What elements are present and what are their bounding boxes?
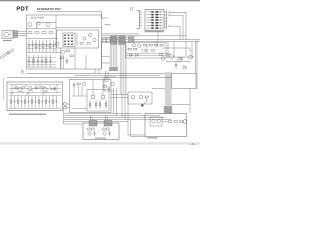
motor terminal marks bbox=[10, 32, 12, 37]
wire bbox=[128, 121, 145, 135]
limiter outline bbox=[145, 114, 187, 137]
capacitor C7 bbox=[37, 55, 39, 67]
wire bbox=[111, 97, 128, 99]
label amp board bbox=[9, 114, 46, 115]
resistor R63 bbox=[145, 96, 148, 98]
resistor R62 bbox=[180, 121, 183, 123]
wire bbox=[56, 27, 102, 29]
pin row 1 bbox=[147, 11, 164, 13]
wire bbox=[72, 108, 87, 110]
vertical wires into bus C bbox=[114, 88, 129, 121]
wire bbox=[27, 61, 56, 63]
capacitor C9 bbox=[41, 55, 43, 67]
wire bbox=[170, 26, 181, 39]
resistor R61 bbox=[174, 121, 177, 123]
wire bbox=[21, 69, 23, 71]
transistor Q31 bbox=[28, 86, 32, 90]
wire bbox=[157, 32, 159, 41]
transistor Q25 bbox=[161, 57, 165, 61]
svg-text:PDT: PDT bbox=[16, 7, 29, 13]
header rule wire bbox=[37, 12, 108, 18]
resistor R27 bbox=[167, 54, 170, 56]
transistor Q20 bbox=[170, 55, 174, 59]
capacitor C31 bbox=[20, 96, 22, 108]
wire bbox=[146, 46, 148, 53]
transistor Q7 bbox=[88, 33, 91, 36]
capacitor C2 bbox=[31, 40, 33, 52]
wire bbox=[72, 95, 87, 97]
wire arrow bbox=[141, 102, 146, 107]
resistor R30 bbox=[10, 96, 12, 108]
wire bbox=[35, 85, 37, 91]
wire bus C2 bbox=[64, 115, 160, 117]
capacitor C60 bbox=[108, 86, 110, 91]
capacitor C20 bbox=[175, 62, 177, 70]
capacitor C4 bbox=[45, 40, 47, 52]
wire bbox=[67, 107, 70, 109]
wire diagonal bbox=[0, 49, 14, 58]
wire bbox=[195, 41, 197, 73]
wire rail B2 bbox=[7, 77, 171, 79]
resistor R40 bbox=[89, 100, 91, 109]
wire bbox=[56, 85, 58, 93]
capacitor C32 bbox=[27, 96, 29, 108]
wire bus C5 bbox=[64, 120, 128, 122]
connector bar CB1 hatched bbox=[111, 36, 118, 45]
label mid small bbox=[105, 24, 111, 25]
wire bbox=[18, 33, 27, 35]
wire bbox=[126, 52, 166, 54]
resistor R24 bbox=[128, 48, 131, 50]
bottom scan band bbox=[0, 142, 200, 144]
wire bus C1 bbox=[64, 113, 142, 115]
capacitor C8 bbox=[66, 58, 68, 64]
wire bbox=[27, 28, 56, 30]
wire bbox=[81, 86, 83, 96]
wire bbox=[152, 88, 165, 90]
transistor Q61 bbox=[157, 120, 161, 124]
wire right edge bbox=[196, 39, 198, 89]
motor M1 bbox=[4, 32, 9, 37]
resistor R38 bbox=[35, 87, 38, 89]
resistor R1 bbox=[28, 32, 32, 34]
box small bbox=[128, 92, 152, 104]
transistor Q63 bbox=[131, 95, 135, 99]
wire bbox=[162, 121, 169, 123]
label motor bbox=[3, 40, 12, 41]
wire bbox=[166, 56, 194, 58]
resistor R12 bbox=[80, 43, 83, 45]
wire bbox=[102, 62, 110, 64]
pin row 5 bbox=[147, 22, 164, 24]
grey band right bbox=[165, 72, 172, 106]
pin row 3 bbox=[147, 17, 164, 19]
wire bbox=[121, 95, 123, 118]
resistor R3 bbox=[42, 32, 46, 34]
wire bbox=[60, 48, 62, 69]
resistor R34 bbox=[38, 96, 40, 108]
resistor R31 bbox=[17, 96, 19, 108]
resistor R41 bbox=[95, 100, 97, 109]
resistor R33 bbox=[31, 96, 33, 108]
resistor R50 bbox=[88, 128, 91, 130]
transistor Q66 bbox=[111, 82, 115, 86]
wire bbox=[189, 89, 191, 113]
wire bbox=[27, 52, 60, 54]
transistor Q24 bbox=[138, 44, 141, 47]
resistor R52 bbox=[103, 128, 106, 130]
resistor R20 bbox=[144, 44, 147, 46]
connector J1 hatched bbox=[14, 31, 18, 38]
transistor Q40 bbox=[91, 95, 95, 99]
ribbon column 2 bbox=[120, 45, 127, 95]
wire bbox=[9, 95, 61, 97]
wire bbox=[173, 41, 175, 57]
sub-board outline bbox=[57, 30, 99, 48]
wire bus A2 bbox=[102, 35, 187, 37]
wire bbox=[102, 80, 104, 95]
wire bbox=[162, 48, 190, 52]
pin row 4 bbox=[147, 19, 164, 21]
wire drop bbox=[94, 120, 96, 121]
transistor Q60 bbox=[152, 120, 156, 124]
wire bus A3 bbox=[102, 37, 135, 39]
pin pads U1 bbox=[64, 35, 66, 36]
resistor R39 bbox=[51, 88, 54, 90]
capacitor C40 bbox=[73, 82, 75, 88]
resistor R29 bbox=[151, 50, 154, 52]
resistor R7 bbox=[49, 40, 51, 52]
pin row 2 bbox=[147, 14, 164, 16]
capacitor C33 bbox=[34, 96, 36, 108]
wire bbox=[37, 22, 57, 24]
wire bbox=[141, 49, 143, 54]
wire bus C4 bbox=[64, 119, 171, 121]
wire bbox=[167, 41, 169, 58]
wire bbox=[124, 95, 126, 120]
wire bbox=[9, 108, 61, 110]
transistor Q6 bbox=[83, 37, 86, 40]
capacitor C35 bbox=[48, 96, 50, 108]
capacitor C37 bbox=[54, 86, 56, 91]
resistor R25 bbox=[134, 48, 137, 50]
wire bbox=[9, 84, 61, 86]
wire drop bbox=[105, 116, 107, 121]
wire bbox=[127, 95, 129, 122]
wire bbox=[101, 41, 103, 69]
resistor R36 bbox=[52, 96, 54, 108]
junction boxes at bus left bbox=[103, 38, 106, 43]
wire bbox=[73, 88, 75, 96]
transistor Q64 bbox=[139, 95, 143, 99]
wire bbox=[55, 15, 57, 53]
grey band right hatched end bbox=[164, 106, 172, 114]
wire bbox=[62, 55, 64, 69]
wire bus A1 bbox=[102, 33, 140, 35]
wire bbox=[185, 41, 187, 56]
box top-right lower bbox=[172, 73, 197, 88]
connector CN2 right pins bbox=[164, 11, 170, 29]
label under connector bbox=[145, 31, 164, 32]
transistor Q62 bbox=[183, 120, 187, 124]
transistor Q32 bbox=[43, 87, 47, 91]
label limiter bbox=[147, 137, 158, 138]
wire bbox=[9, 92, 61, 94]
transistor Q21 bbox=[178, 58, 182, 62]
wire bbox=[27, 66, 56, 68]
capacitor C51 bbox=[108, 131, 110, 136]
capacitor C5 bbox=[52, 40, 54, 52]
wire bbox=[111, 94, 128, 96]
resistor R19 bbox=[160, 54, 163, 56]
emitter arrow Q31 bbox=[32, 90, 34, 92]
bottom-center outline bbox=[83, 123, 119, 140]
svg-text:—9—: —9— bbox=[189, 142, 196, 146]
capacitor C30 bbox=[13, 96, 15, 108]
pin row 6 bbox=[147, 25, 164, 27]
capacitor C41 bbox=[42, 93, 45, 94]
inner box bbox=[87, 90, 109, 112]
middle board outline bbox=[69, 80, 111, 113]
wire bus A4 bbox=[102, 39, 201, 41]
wire bbox=[104, 76, 116, 78]
wire bbox=[18, 31, 27, 33]
resistor R21 bbox=[149, 44, 152, 46]
wire bbox=[131, 120, 146, 137]
wire bbox=[104, 90, 114, 92]
resistor R60 bbox=[169, 121, 172, 123]
board outline U100 bbox=[27, 15, 102, 69]
resistor R43 bbox=[105, 100, 107, 109]
wire drop bbox=[92, 118, 94, 121]
wire drop bbox=[90, 116, 92, 121]
connector bar CB5 hatched bbox=[104, 121, 112, 127]
connector CN1 box bbox=[145, 10, 164, 31]
diode D3 bbox=[136, 54, 139, 57]
resistor R2 bbox=[35, 32, 39, 34]
resistor R22 bbox=[155, 44, 158, 46]
wire bbox=[156, 41, 158, 47]
diode D2 bbox=[130, 54, 133, 57]
wire bbox=[67, 103, 70, 105]
resistor R11 bbox=[70, 55, 73, 57]
top scan band bbox=[0, 0, 200, 1]
resistor R6 bbox=[42, 40, 44, 52]
wire bbox=[146, 98, 148, 102]
resistor R13 bbox=[87, 43, 90, 45]
wire bbox=[98, 69, 100, 73]
ribbon column 1 bbox=[110, 45, 118, 68]
wire bbox=[170, 12, 187, 39]
resistor R53 bbox=[107, 128, 110, 130]
wire bbox=[39, 85, 41, 89]
transistor Q4 bbox=[55, 42, 59, 46]
wire bbox=[27, 38, 58, 40]
wire bbox=[76, 33, 78, 46]
wire diagonal bbox=[0, 51, 14, 60]
transistor Q5 bbox=[61, 50, 65, 54]
wire bbox=[166, 61, 190, 63]
wire bbox=[62, 103, 63, 105]
wire drop bbox=[109, 120, 111, 121]
resistor R37 bbox=[14, 87, 17, 89]
capacitor C36 bbox=[55, 96, 57, 108]
wire bbox=[11, 85, 13, 93]
wire bbox=[74, 48, 76, 69]
wire bbox=[15, 85, 17, 89]
wire bbox=[18, 35, 27, 37]
resistor R28 bbox=[144, 50, 147, 52]
wire bbox=[9, 88, 61, 90]
wire bbox=[172, 104, 191, 106]
ribbon column 1 end hatched bbox=[109, 67, 118, 71]
transistor Q23 bbox=[132, 44, 135, 47]
resistor R14 bbox=[45, 55, 47, 67]
wire bbox=[103, 77, 105, 91]
transistor Q30 bbox=[18, 87, 22, 91]
resistor R32 bbox=[24, 96, 26, 108]
wire bbox=[85, 55, 87, 69]
wire bbox=[78, 85, 80, 96]
svg-text:ACTUATOR: ACTUATOR bbox=[31, 16, 44, 19]
wire bbox=[170, 15, 184, 39]
transistor Q42 bbox=[82, 82, 85, 85]
emitter arrow Q32 bbox=[47, 91, 49, 93]
capacitor C10 bbox=[49, 55, 51, 67]
wire bbox=[60, 55, 62, 69]
capacitor C3 bbox=[38, 40, 40, 52]
terminal T1 bbox=[64, 103, 67, 106]
capacitor C34 bbox=[41, 96, 43, 108]
wire bus A5 bbox=[102, 41, 201, 43]
wire bbox=[102, 55, 110, 57]
sub-box power bbox=[126, 43, 167, 59]
transistor Q2 bbox=[37, 22, 40, 25]
wire bbox=[27, 48, 56, 50]
diode D1 bbox=[183, 66, 186, 71]
resistor R35 bbox=[45, 96, 47, 108]
resistor R26 bbox=[180, 58, 183, 60]
label bottom-center bbox=[95, 138, 106, 139]
transistor Q3 bbox=[46, 23, 50, 27]
transistor Q65 bbox=[105, 78, 109, 82]
tick marks top middle bbox=[131, 7, 133, 11]
transistor Q51 bbox=[103, 132, 106, 135]
connector bar CB2 hatched bbox=[119, 36, 126, 45]
resistor R9 bbox=[60, 57, 63, 59]
wire bbox=[36, 23, 38, 29]
wire bbox=[49, 85, 51, 89]
wire left edge stub bbox=[3, 78, 5, 101]
capacitor C6 bbox=[28, 55, 30, 67]
wire bbox=[105, 71, 107, 78]
terminal T2 bbox=[64, 106, 67, 109]
wire bbox=[27, 44, 56, 46]
bracket P1 bbox=[137, 11, 140, 29]
wire bbox=[191, 41, 193, 58]
node pin bbox=[21, 71, 23, 73]
inner box bbox=[150, 117, 162, 126]
resistor R4 bbox=[49, 32, 53, 34]
svg-text:SCHEMATIC PDT: SCHEMATIC PDT bbox=[37, 7, 61, 11]
wire bbox=[126, 55, 166, 57]
motor M1 box bbox=[2, 31, 13, 39]
wire bbox=[116, 88, 118, 116]
wire bbox=[94, 69, 96, 73]
resistor R10 bbox=[66, 50, 69, 52]
transistor Q8 bbox=[93, 38, 96, 41]
wire bbox=[27, 57, 56, 59]
resistor R42 bbox=[99, 100, 101, 109]
transistor Q1 bbox=[28, 23, 32, 27]
resistor R5 bbox=[35, 40, 37, 52]
capacitor C38 bbox=[11, 93, 14, 94]
wire rail B3 bbox=[74, 74, 160, 76]
connector bar CB4 hatched bbox=[89, 121, 97, 127]
wire bbox=[107, 71, 109, 78]
resistor R46 bbox=[41, 87, 44, 89]
wire drop to bottom board bbox=[64, 109, 84, 125]
wire rail B1 bbox=[27, 72, 166, 74]
transistor Q41 bbox=[101, 95, 105, 99]
pin row 7 bbox=[147, 27, 164, 29]
capacitor C39 bbox=[27, 93, 30, 94]
resistor R8 bbox=[33, 55, 35, 67]
connector bar CB3 hatched bbox=[129, 37, 135, 43]
resistor R64 bbox=[104, 86, 107, 88]
resistor R23 bbox=[160, 44, 163, 46]
wire drop bbox=[107, 118, 109, 121]
resistor R44 bbox=[77, 83, 80, 85]
wire bus C3 bbox=[64, 117, 165, 119]
wire bbox=[113, 88, 115, 114]
wire bbox=[27, 64, 56, 66]
capacitor C1 bbox=[28, 40, 30, 52]
wire bbox=[92, 80, 94, 95]
transistor Q22 bbox=[189, 55, 193, 59]
resistor R51 bbox=[92, 128, 95, 130]
emitter arrow Q30 bbox=[22, 91, 24, 93]
transistor Q50 bbox=[88, 132, 91, 135]
IC U1 bbox=[63, 33, 75, 46]
capacitor C50 bbox=[93, 131, 95, 136]
resistor R45 bbox=[22, 87, 25, 89]
amp board outline bbox=[7, 82, 62, 111]
node X1 bbox=[7, 52, 9, 54]
wire bbox=[25, 85, 27, 88]
